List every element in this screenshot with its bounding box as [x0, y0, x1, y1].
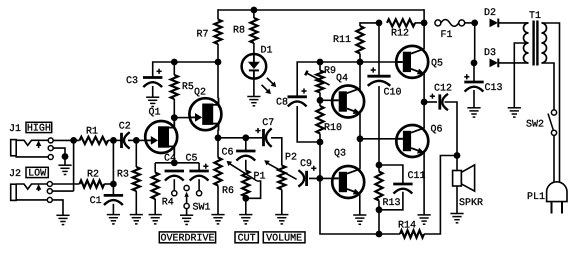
wire R14 right corner up to output — [424, 156, 457, 235]
label PL1 — [527, 192, 545, 203]
polarity C12 — [430, 94, 435, 99]
wire C5 lead to SW1 — [198, 179, 200, 190]
wire R8 to D1 — [253, 43, 255, 55]
wire R9 to Q4 base node — [319, 93, 321, 101]
svg-text:R14: R14 — [398, 221, 416, 232]
wire SW2 to PL1 — [553, 135, 555, 182]
wire J2 tip contact — [16, 184, 48, 189]
resistor R2 — [80, 180, 105, 187]
svg-text:C8: C8 — [276, 98, 288, 109]
wire R3 top lead — [135, 140, 137, 167]
wire R10 top lead — [319, 100, 321, 106]
ground P2 — [275, 215, 288, 224]
junction J1 ground — [62, 153, 69, 160]
wire speaker top lead — [456, 156, 458, 171]
polarity C8 — [301, 88, 306, 93]
capacitor C11 — [393, 184, 412, 194]
svg-text:D1: D1 — [261, 46, 273, 57]
potentiometer P2 wiper — [264, 160, 296, 179]
label LOW — [26, 167, 48, 179]
label R4 — [162, 198, 174, 209]
resistor R4 — [152, 173, 159, 200]
junction C2/R3 — [133, 137, 140, 144]
transistor Q1 — [145, 121, 177, 154]
svg-text:D3: D3 — [484, 48, 496, 59]
svg-text:C10: C10 — [384, 88, 402, 99]
wire rail corner to R12/F1 node — [423, 9, 425, 23]
wire Q4 base — [320, 99, 333, 101]
wire R1 node down — [112, 140, 114, 184]
svg-text:T1: T1 — [529, 11, 541, 22]
svg-text:Q6: Q6 — [431, 125, 443, 136]
ground J1 — [58, 165, 71, 174]
label Q2 — [194, 88, 206, 99]
label C6 — [222, 148, 234, 159]
svg-text:C1: C1 — [90, 196, 102, 207]
ground SPKR — [450, 214, 463, 223]
switch SW1 — [172, 185, 202, 208]
label HIGH — [26, 122, 52, 134]
wire D2 to T1 — [499, 22, 529, 24]
wire C1 top lead — [112, 184, 114, 195]
junction Q3 base — [316, 175, 323, 182]
label C10 — [384, 88, 402, 99]
resistor R5 — [171, 75, 178, 99]
junction rail2/R12 — [376, 20, 383, 27]
label C12 — [434, 84, 452, 95]
svg-text:R9: R9 — [324, 66, 336, 77]
wire speaker bottom lead — [456, 186, 458, 214]
svg-text:C9: C9 — [300, 159, 312, 170]
label J1 — [9, 124, 21, 135]
junction J1 tip — [70, 137, 77, 144]
ground C13 — [467, 108, 480, 117]
jack J1 body — [11, 140, 17, 156]
label R1 — [86, 127, 98, 138]
wire P2 bottom to ground — [281, 190, 283, 215]
wire R11 top corner — [360, 23, 379, 26]
label C11 — [408, 171, 426, 182]
label R7 — [197, 30, 209, 41]
wire R6 top lead — [217, 138, 219, 158]
wire Q2 base — [174, 117, 190, 119]
resistor R14 — [400, 230, 424, 237]
wire source row Q2 to C7 — [217, 130, 219, 138]
wire C3 bottom lead — [152, 86, 154, 97]
wire R7 bottom to Q2 collector — [217, 44, 219, 98]
wire R13 node to feedback rail — [378, 210, 380, 234]
wire P1 bottom to ground — [245, 197, 247, 215]
wire C8 bottom corner — [297, 106, 320, 142]
junction Q4 base — [317, 97, 324, 104]
resistor R1 — [80, 137, 109, 144]
wire R10 bottom to node — [319, 134, 321, 143]
resistor R11 — [356, 26, 363, 54]
wire T1 center tap — [514, 43, 528, 108]
wire C9 to Q3 base — [309, 177, 332, 179]
potentiometer P1 — [242, 171, 249, 197]
wire R12 right to F1 node — [415, 22, 424, 24]
wire J1 node to J2 — [73, 140, 75, 191]
wire R4 bottom lead — [154, 199, 156, 215]
svg-text:R13: R13 — [383, 198, 401, 209]
svg-text:R2: R2 — [87, 170, 99, 181]
svg-text:C6: C6 — [222, 148, 234, 159]
wire C9 node down to feedback rail — [320, 178, 400, 234]
wire C11 bottom branch — [379, 192, 403, 210]
wire T1 secondary bottom to SW2 — [542, 63, 555, 110]
wire J2 sleeve — [16, 198, 48, 201]
junction C4 rail — [171, 159, 178, 166]
capacitor C8 — [288, 97, 307, 107]
label D2 — [484, 8, 496, 19]
svg-text:C12: C12 — [434, 84, 452, 95]
polarity C7 — [255, 128, 260, 133]
label R3 — [117, 170, 129, 181]
wire F1 to D2 node — [465, 22, 475, 24]
arrow J2 tip switch — [36, 184, 41, 190]
wire J2 tip to R2 — [52, 183, 80, 185]
wire R13 bottom — [378, 201, 380, 210]
label P1 — [254, 171, 266, 182]
junction Q2 source — [215, 134, 222, 141]
polarity C10 — [371, 67, 376, 72]
wire C2 node to plate — [108, 139, 122, 141]
wire J1 ring contact — [53, 148, 65, 156]
junction R8 rail — [251, 7, 258, 14]
resistor R13 — [375, 172, 382, 201]
svg-text:R3: R3 — [117, 170, 129, 181]
label CUT — [235, 232, 258, 245]
wire R2 to C1 node — [104, 183, 113, 185]
trimmer R9 arrow — [305, 71, 329, 85]
ground Q6 — [418, 215, 431, 224]
svg-text:P1: P1 — [254, 171, 266, 182]
svg-text:R6: R6 — [222, 186, 234, 197]
wire C2 out — [128, 139, 136, 141]
wire J2 ring contact — [52, 190, 74, 192]
junction R2/C1 — [110, 181, 117, 188]
svg-text:Q4: Q4 — [336, 74, 348, 85]
wire C7 out corner to P2 — [271, 138, 282, 166]
svg-text:LOW: LOW — [28, 168, 46, 179]
wire rail2 down through bus to C10 — [378, 23, 380, 76]
resistor R7 — [214, 20, 221, 45]
junction P1 bottom — [242, 195, 249, 202]
svg-text:J1: J1 — [9, 124, 21, 135]
wire J1 tip switch arrow — [38, 145, 40, 148]
label Q6 — [431, 125, 443, 136]
svg-text:SW1: SW1 — [193, 203, 211, 214]
wire bus left segment — [153, 62, 218, 78]
potentiometer P1 wiper — [227, 161, 261, 198]
capacitor C1 — [104, 195, 123, 205]
svg-text:R11: R11 — [333, 35, 351, 46]
label C8 — [276, 98, 288, 109]
label C9 — [300, 159, 312, 170]
svg-text:C3: C3 — [126, 76, 138, 87]
junction output — [421, 99, 428, 106]
wire R3 bottom lead — [135, 191, 137, 215]
jack J1 contacts — [48, 138, 53, 160]
capacitor C7 — [264, 128, 272, 146]
wire node A to Q6 base — [360, 138, 397, 140]
wire Q5 emitter to output node — [423, 74, 425, 103]
wire R4 lead corner — [154, 163, 156, 173]
label R5 — [182, 82, 194, 93]
fuse F1 — [435, 20, 465, 27]
wire R5 leads — [173, 62, 175, 75]
wire J2 sleeve to ground — [52, 200, 63, 215]
svg-text:D2: D2 — [484, 8, 496, 19]
label D1 — [261, 46, 273, 57]
polarity C9 — [311, 166, 316, 171]
ground SW1 — [180, 215, 193, 224]
svg-text:Q1: Q1 — [149, 108, 161, 119]
transistor Q6 — [396, 125, 428, 157]
label VOLUME — [263, 232, 305, 245]
trimmer R9 — [316, 71, 323, 93]
wire C6 to P1 — [245, 160, 247, 171]
wire R6 bottom lead — [217, 186, 219, 215]
wire C13 to ground — [473, 90, 475, 108]
junction speaker node — [454, 152, 461, 159]
wire C10 bottom to R13 node — [378, 86, 380, 165]
polarity C13 — [464, 74, 469, 79]
wire R9 top lead — [319, 62, 321, 71]
label R2 — [87, 170, 99, 181]
wire node down to C9 node — [319, 142, 321, 178]
wire rail to R7 — [217, 9, 219, 19]
svg-text:R8: R8 — [233, 26, 245, 37]
capacitor C9 — [298, 170, 306, 186]
wire source row — [218, 137, 263, 139]
wire SW1 common to ground — [186, 209, 188, 216]
svg-text:R1: R1 — [86, 127, 98, 138]
wire Q6 emitter to ground — [423, 153, 425, 215]
resistor R8 — [250, 18, 257, 43]
ground D1 — [247, 97, 260, 106]
resistor R6 — [214, 158, 221, 186]
capacitor C3 — [143, 78, 162, 88]
capacitor C13 — [464, 82, 483, 92]
wire bus right segment — [320, 61, 397, 63]
label R13 — [383, 198, 401, 209]
transistor Q2 — [189, 98, 221, 131]
label J2 — [9, 169, 21, 180]
polarity C5 — [203, 164, 208, 169]
ground T1 tap — [508, 108, 521, 117]
wire C8 corner from bus — [297, 62, 320, 96]
wire D1 cathode to ground — [253, 71, 255, 97]
svg-text:C2: C2 — [119, 121, 131, 132]
label C5 — [186, 154, 198, 165]
wire C1 bottom lead — [112, 204, 114, 215]
label T1 — [529, 11, 541, 22]
label R10 — [324, 123, 342, 134]
junction R13 rail — [376, 231, 383, 238]
LED D1 — [242, 54, 267, 79]
transistor Q3 — [332, 166, 364, 198]
wire vertical Q4 collector-emitter column — [359, 62, 361, 139]
capacitor C10 — [367, 76, 390, 86]
wire J1 tip contact — [16, 140, 48, 145]
wire Q3 collector lead — [359, 139, 361, 169]
wire R5 bottom to Q1 junction — [173, 99, 175, 118]
svg-text:P2: P2 — [285, 153, 297, 164]
arrow J1 tip switch — [36, 140, 41, 146]
wire R8 top lead — [253, 10, 255, 18]
potentiometer P2 — [278, 166, 285, 190]
junction C11 bottom — [376, 206, 383, 213]
wire D2 node down to D3 — [474, 23, 476, 63]
wire J1 ground node lead — [64, 157, 66, 166]
junction R12/F1/rail1 — [421, 20, 428, 27]
junction R13 top — [376, 162, 383, 169]
ground R4 — [149, 215, 162, 224]
plug PL1 — [547, 182, 567, 214]
junction node A — [357, 135, 364, 142]
capacitor C5 — [189, 171, 208, 181]
svg-text:C11: C11 — [408, 171, 426, 182]
svg-text:R5: R5 — [182, 82, 194, 93]
svg-text:F1: F1 — [441, 30, 453, 41]
label C3 — [126, 76, 138, 87]
resistor R10 — [316, 106, 323, 134]
wire C6 lead — [245, 138, 247, 151]
jack J2 contacts — [47, 182, 52, 203]
ground Q3 — [353, 215, 366, 224]
junction Q1/Q2 — [171, 114, 178, 121]
wire supply rail top — [218, 9, 424, 11]
label C1 — [90, 196, 102, 207]
ground C3 — [146, 97, 159, 106]
label Q3 — [334, 149, 346, 160]
label P2 — [285, 153, 297, 164]
junction F1/D2 — [471, 20, 478, 27]
switch SW2 — [548, 110, 557, 135]
capacitor C6 — [236, 151, 255, 161]
diode D3 — [490, 59, 499, 68]
label R14 — [398, 221, 416, 232]
label SPKR — [459, 198, 483, 209]
label D3 — [484, 48, 496, 59]
label C7 — [262, 118, 274, 129]
wire J2 tip switch arrow — [38, 189, 40, 192]
svg-text:Q3: Q3 — [334, 149, 346, 160]
capacitor C4 — [165, 171, 184, 181]
wire C11 top branch — [379, 165, 403, 184]
polarity C3 — [157, 69, 162, 74]
wire D3 node to C13 — [473, 63, 475, 82]
wire R11 bottom lead — [359, 54, 361, 63]
ground J2 — [56, 215, 69, 224]
label R8 — [233, 26, 245, 37]
speaker SPKR — [453, 165, 475, 191]
wire C4 lead to SW1 — [173, 179, 175, 190]
svg-text:C13: C13 — [485, 83, 503, 94]
label F1 — [441, 30, 453, 41]
resistor R3 — [133, 167, 140, 191]
wire C12 to speaker corner — [445, 102, 458, 156]
junction C6 tap — [242, 134, 249, 141]
wire output node to Q6 collector — [423, 102, 425, 129]
svg-text:VOLUME: VOLUME — [266, 234, 302, 245]
ground R3 — [130, 215, 143, 224]
wire D3 to T1 — [499, 62, 529, 64]
svg-text:J2: J2 — [9, 169, 21, 180]
svg-text:R4: R4 — [162, 198, 174, 209]
wire Q1 drain lead — [173, 118, 175, 121]
junction R7/Q2/bus — [215, 59, 222, 66]
capacitor C12 — [440, 94, 448, 110]
label C13 — [485, 83, 503, 94]
junction R5 top — [171, 59, 178, 66]
resistor R12 — [387, 19, 415, 26]
svg-text:PL1: PL1 — [527, 192, 545, 203]
transistor Q5 — [396, 46, 428, 78]
ground R6 — [211, 215, 224, 224]
label Q1 — [149, 108, 161, 119]
label R12 — [391, 29, 409, 40]
wire Q3 emitter to ground — [359, 195, 361, 216]
transistor Q4 — [332, 86, 364, 118]
wire output to C12 — [424, 101, 437, 103]
wire C4/C5 top rail — [155, 162, 199, 164]
label Q5 — [431, 59, 443, 70]
svg-text:Q2: Q2 — [194, 88, 206, 99]
wire J1 sleeve — [16, 155, 48, 157]
label Q4 — [336, 74, 348, 85]
junction D3/C13 — [471, 60, 478, 67]
wire R13 top lead — [378, 165, 380, 172]
svg-text:R10: R10 — [324, 123, 342, 134]
ground C1 — [107, 215, 120, 224]
wire T1 secondary top to SW2 column — [542, 23, 560, 182]
svg-text:OVERDRIVE: OVERDRIVE — [160, 234, 214, 245]
LED D1 arrows — [262, 78, 277, 94]
svg-text:R7: R7 — [197, 30, 209, 41]
label R9 — [324, 66, 336, 77]
junction R11 bottom — [357, 59, 364, 66]
svg-text:R12: R12 — [391, 29, 409, 40]
jack J2 body — [11, 184, 17, 200]
label OVERDRIVE — [159, 232, 215, 245]
wire Q1 source to C4 node — [173, 153, 175, 163]
svg-text:C7: C7 — [262, 118, 274, 129]
wire Q1 base — [136, 139, 145, 141]
junction R1/C2 — [110, 137, 117, 144]
svg-text:HIGH: HIGH — [27, 123, 51, 134]
svg-text:CUT: CUT — [238, 234, 256, 245]
label SW1 — [193, 203, 211, 214]
svg-text:Q5: Q5 — [431, 59, 443, 70]
label C2 — [119, 121, 131, 132]
diode D2 — [490, 19, 499, 28]
junction C8/R10 — [317, 139, 324, 146]
svg-text:SPKR: SPKR — [459, 198, 483, 209]
ground P1 — [239, 215, 252, 224]
svg-text:SW2: SW2 — [526, 120, 544, 131]
capacitor C2 — [122, 132, 130, 148]
label SW2 — [526, 120, 544, 131]
wire C5 top lead — [198, 163, 200, 171]
wire Q5 collector lead — [423, 23, 425, 49]
label C4 — [164, 154, 176, 165]
junction R9 top — [317, 59, 324, 66]
transformer T1 — [524, 21, 547, 66]
wire J1 tip to R1 — [53, 139, 80, 141]
